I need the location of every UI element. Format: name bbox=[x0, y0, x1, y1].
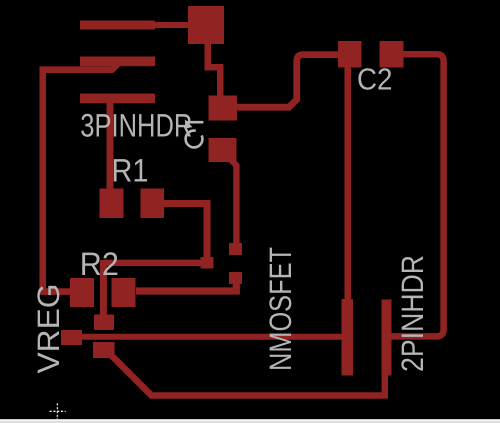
svg-text:C2: C2 bbox=[357, 63, 393, 97]
svg-text:NMOSFET: NMOSFET bbox=[263, 247, 298, 371]
svg-text:2PINHDR: 2PINHDR bbox=[395, 255, 430, 372]
svg-text:3PINHDR: 3PINHDR bbox=[80, 108, 192, 144]
svg-text:R2: R2 bbox=[80, 246, 119, 282]
svg-text:VREG: VREG bbox=[31, 284, 66, 374]
svg-text:R1: R1 bbox=[112, 153, 149, 189]
